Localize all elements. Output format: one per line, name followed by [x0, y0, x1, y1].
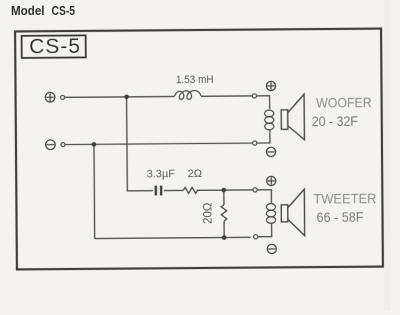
svg-text:3.3µF: 3.3µF: [147, 168, 176, 180]
svg-text:66 - 58F: 66 - 58F: [316, 209, 363, 225]
svg-text:TWEETER: TWEETER: [313, 190, 376, 206]
svg-text:Model: Model: [11, 3, 45, 18]
svg-text:WOOFER: WOOFER: [316, 94, 372, 110]
svg-text:CS-5: CS-5: [52, 3, 76, 18]
svg-text:20Ω: 20Ω: [202, 202, 214, 224]
svg-text:1.53 mH: 1.53 mH: [176, 74, 214, 86]
svg-text:CS-5: CS-5: [29, 35, 81, 58]
svg-text:2Ω: 2Ω: [188, 168, 202, 180]
svg-text:20 - 32F: 20 - 32F: [312, 113, 358, 129]
